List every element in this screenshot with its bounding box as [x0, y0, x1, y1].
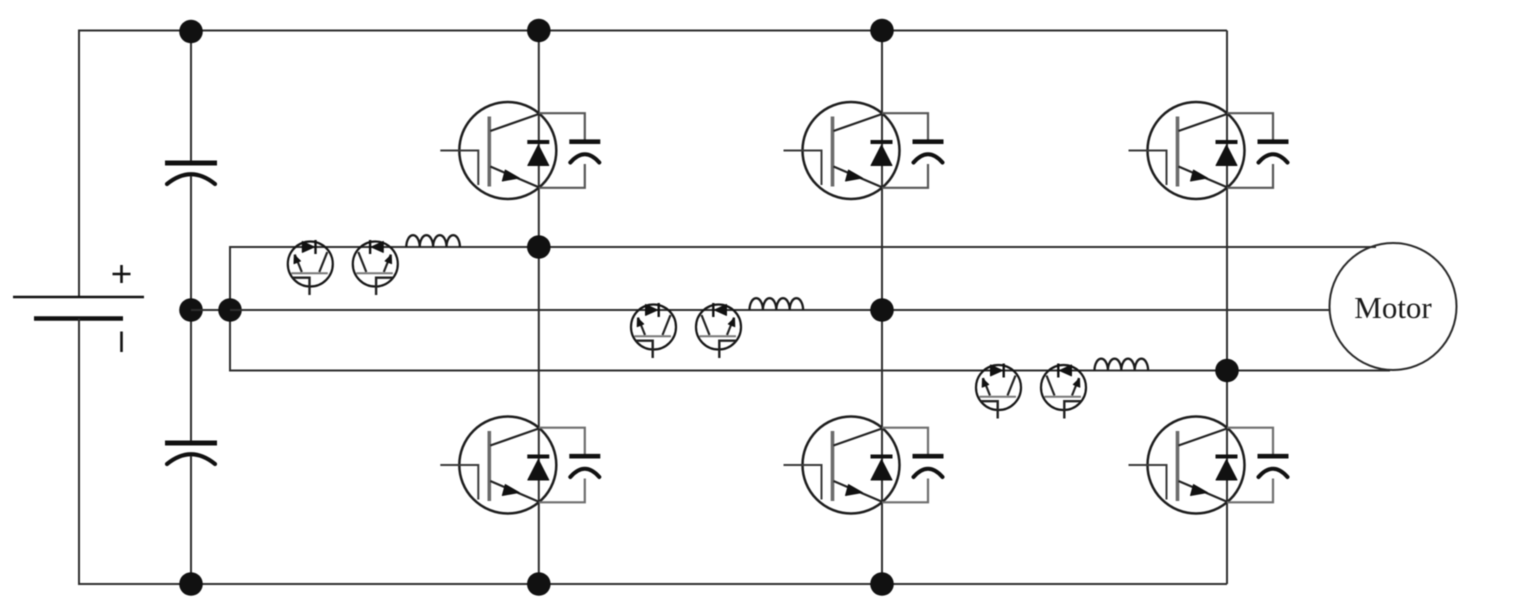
wire bracket vertical — [229, 246, 231, 372]
junction dot leg B top — [870, 19, 894, 43]
battery V1 — [13, 265, 144, 352]
transistor S6 — [1041, 364, 1086, 419]
IGBT Q4 — [784, 417, 900, 514]
junction dot phase C midpoint — [1215, 359, 1239, 383]
transistor S3 — [631, 303, 676, 358]
junction dot top rail / C1 — [179, 20, 203, 44]
transistor S1 — [288, 240, 333, 295]
junction dot bottom rail / C2 — [179, 572, 203, 596]
capacitor C2 (snubber of Q2) — [539, 428, 601, 503]
capacitor C3 (snubber of Q3) — [882, 113, 944, 188]
junction dot phase A midpoint — [527, 235, 551, 259]
junction dot bracket — [218, 298, 242, 322]
IGBT Q3 — [784, 102, 900, 199]
IGBT Q6 — [1129, 417, 1245, 514]
IGBT Q5 — [1129, 102, 1245, 199]
IGBT Q1 — [440, 102, 556, 199]
motor M — [1330, 243, 1457, 370]
diode D3 (freewheel of Q3) — [871, 142, 893, 166]
capacitor C6 (snubber of Q6) — [1227, 428, 1289, 503]
capacitor C1 — [165, 163, 217, 184]
wire inverter leg A vertical — [538, 31, 540, 585]
wire midpoint to bracket — [191, 309, 230, 311]
diode D4 (freewheel of Q4) — [871, 457, 893, 481]
capacitor C1 (snubber of Q1) — [539, 113, 601, 188]
svg-text:Motor: Motor — [1354, 290, 1432, 325]
junction dot leg A top — [527, 19, 551, 43]
wire dc-link upper segment — [190, 31, 192, 161]
diode D1 (freewheel of Q1) — [527, 142, 549, 166]
wire dc-link middle segment — [190, 176, 192, 441]
wire battery top lead — [78, 31, 80, 298]
wire bottom DC- rail — [78, 583, 1227, 585]
diode D2 (freewheel of Q2) — [527, 457, 549, 481]
capacitor C2 — [165, 443, 217, 464]
wire phase C line — [230, 370, 1390, 372]
wire phase A line — [230, 246, 1376, 248]
capacitor C5 (snubber of Q5) — [1227, 113, 1289, 188]
diode D6 (freewheel of Q6) — [1216, 457, 1238, 481]
wire inverter leg B vertical — [881, 31, 883, 585]
wire battery bottom lead — [78, 319, 80, 585]
inductor L3 — [1095, 359, 1149, 371]
inductor L2 — [750, 298, 804, 310]
IGBT Q2 — [440, 417, 556, 514]
wire phase B line — [230, 309, 1330, 311]
inductor L1 — [406, 235, 460, 247]
transistor S2 — [353, 240, 398, 295]
junction dot phase B midpoint — [870, 298, 894, 322]
transistor S4 — [696, 303, 741, 358]
diode D5 (freewheel of Q5) — [1216, 142, 1238, 166]
junction dot midpoint M — [179, 298, 203, 322]
wire inverter leg C vertical — [1226, 31, 1228, 585]
wire top DC+ rail — [78, 30, 1227, 32]
junction dot leg A bottom — [527, 572, 551, 596]
transistor S5 — [976, 364, 1021, 419]
junction dot leg B bottom — [870, 572, 894, 596]
capacitor C4 (snubber of Q4) — [882, 428, 944, 503]
wire dc-link lower segment — [190, 456, 192, 584]
